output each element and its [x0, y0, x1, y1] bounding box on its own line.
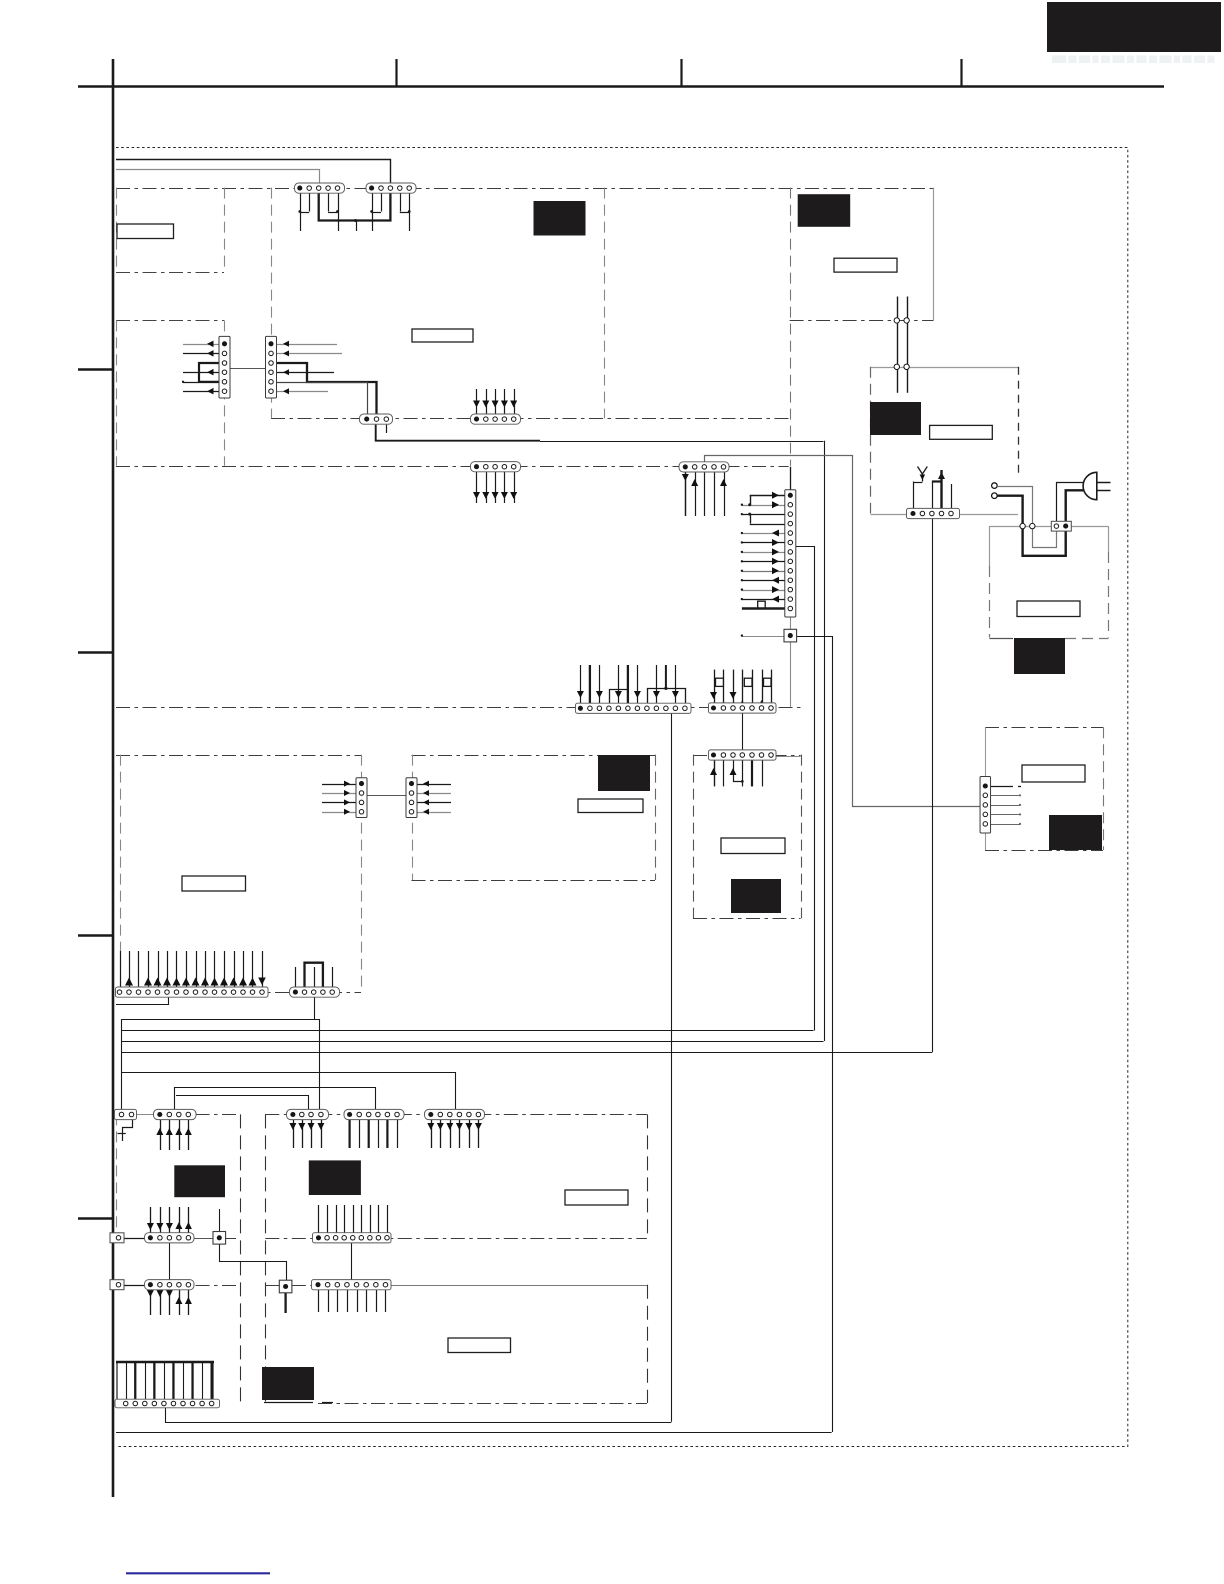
ruler tick top 2: [680, 59, 682, 87]
video board box right edge: [655, 755, 657, 880]
dash-dot line y=754.6 segment 1: [116, 755, 361, 757]
key symbol 3: [764, 678, 772, 686]
bus wire y=1052: [121, 1052, 932, 1054]
connector CN antenna: [907, 508, 960, 518]
page ruler vertical line: [112, 59, 115, 1497]
ruler tick left 3: [78, 934, 113, 936]
plug wire 1: [1057, 483, 1085, 522]
bus wire y=1071.5: [121, 1073, 456, 1110]
wire V2 pin4: [276, 372, 334, 374]
connector CN R2a: [145, 1233, 195, 1243]
amp box row2 right edge: [647, 1285, 649, 1403]
faint model number text: [1052, 56, 1215, 64]
label W2: [412, 329, 473, 342]
junction circle 2 on PSU edge: [1030, 523, 1035, 528]
key symbol 1: [716, 678, 724, 686]
amp box row2 top edge left: [116, 1285, 241, 1287]
ruler tick left 1: [78, 368, 113, 370]
amp box row1 left right-edge: [240, 1114, 242, 1403]
PCB box outline top horizontal y=187.6: [116, 188, 933, 190]
wire C3 to main bus (thick): [376, 425, 540, 441]
edge connector E3: [110, 1280, 124, 1290]
amp box row1 center right-edge: [647, 1114, 649, 1237]
label W8: [721, 838, 785, 854]
wire C6 pin3 to standby connector: [705, 456, 991, 807]
wires below CN C6: [685, 472, 687, 516]
amp box row2 bottom edge: [318, 1403, 647, 1405]
bus wire y=1087: [175, 1088, 376, 1110]
wire E3 to R3a: [124, 1285, 145, 1287]
connector CN C3: [360, 414, 393, 424]
AC wire 1: [997, 487, 1056, 548]
ruler tick left 4: [78, 1217, 113, 1219]
wires into CN C10: [120, 951, 122, 987]
power supply box bottom edge: [989, 638, 1013, 640]
wires out of CN G: [991, 786, 1014, 788]
link V1-V2: [230, 368, 266, 370]
connector CN V1: [219, 336, 230, 398]
label box B9 amp C: [309, 1160, 361, 1195]
tuner board box bottom edge: [790, 320, 934, 322]
bottom rail wire y=1432: [116, 1432, 832, 1434]
AC terminal 1: [992, 483, 998, 489]
thick bus T1 pin3 to T2 pin3: [319, 193, 391, 221]
amp box row1 center left-edge: [265, 1114, 267, 1403]
connector CN R3c: [312, 1280, 392, 1290]
wires below R1d: [349, 1120, 351, 1149]
label W4: [930, 425, 993, 439]
edge connector E2: [110, 1233, 124, 1243]
wire R3c right link: [391, 1285, 647, 1287]
board2 right edge: [224, 320, 226, 465]
wire P2 stub up: [219, 1209, 221, 1232]
AM loop antenna symbol: [918, 467, 928, 475]
connector CN C10: [116, 987, 269, 997]
connector CN C7: [576, 703, 692, 713]
wire speaker to rail: [166, 1408, 672, 1423]
connector CN C5: [471, 462, 521, 472]
connector CN C11: [290, 987, 340, 997]
wire P1 left stub: [742, 636, 784, 638]
key symbol 2: [744, 678, 752, 686]
link V4-V5: [367, 795, 406, 797]
label box B6 jack: [731, 879, 781, 913]
display board box left edge: [120, 755, 122, 993]
plug prong 1: [1097, 482, 1111, 484]
wire C9 right to box edge: [776, 756, 801, 758]
ruler tick left 2: [78, 651, 113, 653]
wire P2 to P3: [220, 1244, 287, 1281]
wire T2 pins 1-2: [372, 193, 374, 212]
connector CN V3: [785, 490, 796, 617]
transformer box right edge: [1018, 367, 1020, 475]
dash-dot line y=465.8: [116, 466, 789, 468]
main board box bottom edge y=418.4: [271, 418, 790, 420]
label W1: [117, 224, 174, 239]
dash-dot line y=754.6 segment 3: [693, 755, 801, 757]
wires out of CN V2: [276, 344, 337, 346]
label W5: [1017, 601, 1080, 617]
tuner board box right edge: [933, 188, 935, 321]
stubs above C11: [295, 967, 297, 988]
wire P1 to vertical bus x=831.6: [797, 637, 833, 1433]
board2 left edge: [116, 320, 118, 465]
power supply box top edge: [989, 526, 1108, 528]
ruler tick top 3: [960, 59, 962, 87]
display board box bottom edge: [116, 992, 361, 994]
label box B3 transformer: [870, 402, 921, 435]
connector CN T2: [366, 183, 416, 193]
wires below CN C5: [476, 472, 478, 503]
label box B4 power supply: [1014, 638, 1065, 674]
standby board box left edge: [985, 727, 987, 850]
connector CN C9: [709, 750, 777, 760]
wires below R3a: [150, 1289, 152, 1315]
wire P2 link to R2a: [194, 1238, 213, 1240]
jack board box bottom edge: [693, 918, 801, 920]
connector CN R1c: [287, 1109, 329, 1119]
dash-dot line y=707.3: [116, 707, 801, 709]
wires above R2a: [150, 1207, 152, 1234]
wires into CN V4: [322, 784, 356, 786]
label box B2: [798, 194, 851, 227]
page dotted border: [116, 148, 1128, 1447]
transformer box top edge: [871, 367, 1018, 369]
standby board box bottom edge: [985, 850, 1103, 852]
label box B8 amp L: [174, 1165, 225, 1197]
wires below R3c: [318, 1290, 320, 1312]
wire C7 drop to bottom rail: [671, 714, 673, 1422]
wire to CN T1: [116, 170, 320, 184]
AC terminal 2: [992, 493, 998, 499]
amp box row1 top edge left: [116, 1114, 241, 1116]
wire V2 pin5 to C3 pin1: [276, 383, 368, 414]
board2 top edge: [116, 320, 224, 322]
thick staple V1 rows 3-5: [199, 363, 219, 382]
wire E2 to R2a: [124, 1238, 145, 1240]
AC wire 2 thick: [997, 496, 1065, 556]
bus stub: [354, 219, 357, 222]
connector CN speaker: [115, 1399, 220, 1408]
header title block: [1047, 2, 1221, 52]
tuner board box left edge: [790, 188, 792, 466]
thick staple above C11: [305, 963, 323, 988]
transformer box bottom edge: [871, 514, 1019, 516]
connector CN G: [980, 777, 991, 834]
label box B5 standby: [1049, 815, 1102, 850]
transformer box left edge: [870, 367, 872, 514]
bus wire y=1041: [121, 1041, 824, 1043]
wire V2 pin6: [276, 391, 328, 393]
wires into CN V1: [183, 344, 219, 346]
amp box row2 top edge center: [265, 1285, 647, 1287]
ruler tick top 1: [395, 59, 397, 87]
label W7: [578, 799, 643, 813]
wire T1 pins 4-5: [328, 193, 330, 212]
bus wire y=1030.5: [121, 1030, 814, 1032]
wire below C10: [116, 997, 169, 1005]
interboard link circles pair: [897, 297, 899, 393]
wires into CN C4: [476, 389, 478, 414]
amp box row1 top edge center: [265, 1114, 647, 1116]
wire below P3 thick: [284, 1292, 286, 1313]
power supply box left edge: [989, 526, 991, 566]
wires above R2c: [318, 1205, 320, 1233]
connector CN R3a: [145, 1280, 195, 1290]
wire V3 to vertical bus x=813.5: [796, 547, 815, 1031]
standby board box right edge: [1103, 727, 1105, 850]
connector CN R1e: [425, 1109, 485, 1119]
connector CN R1b: [154, 1109, 197, 1119]
wires below R1c: [293, 1120, 295, 1149]
connector CN R1a: [115, 1109, 137, 1119]
connector CN R2c: [313, 1233, 392, 1243]
wires below R1e: [431, 1120, 433, 1149]
standby board box top edge: [985, 727, 1103, 729]
wires below CN C9: [714, 760, 716, 787]
front board box right edge: [224, 188, 226, 272]
front board box bottom edge: [116, 272, 224, 274]
plug prong 2: [1097, 490, 1111, 492]
wire antenna pin3 vertical: [932, 519, 934, 1052]
wire T2 pins 4-5: [400, 193, 402, 212]
wires into CN C7: [580, 665, 582, 703]
wires out of CN V5: [417, 784, 451, 786]
power supply box right edge: [1108, 526, 1110, 552]
connector CN C8: [709, 703, 777, 713]
amp box row1 bottom edge center: [265, 1238, 647, 1240]
AC inlet connector: [1051, 521, 1071, 531]
connector CN V4: [356, 778, 367, 818]
connector CN V2: [266, 336, 277, 398]
wires into R1b: [160, 1120, 162, 1151]
FM antenna symbol: [938, 472, 945, 479]
label W6: [1022, 765, 1085, 782]
wires below R1a ground: [123, 1119, 133, 1141]
bus wire y=1019: [122, 1020, 320, 1110]
AC power plug: [1083, 472, 1097, 499]
underline of B10: [264, 1402, 313, 1404]
connector CN R1d: [344, 1109, 404, 1119]
jack board box left edge: [693, 755, 695, 919]
connector CN C4: [471, 414, 521, 424]
wire R1a to R1b: [137, 1114, 154, 1116]
junction circle 1 on PSU edge: [1020, 523, 1025, 528]
wire T1 pins 1-2: [300, 193, 302, 212]
bus wire y=1095: [176, 1096, 309, 1110]
label W9: [182, 876, 246, 891]
connector P2: [213, 1232, 226, 1245]
wire R2a pin3 to R3a: [169, 1242, 171, 1280]
connector P3: [279, 1280, 292, 1293]
label box B1: [534, 201, 586, 236]
footer link line: [126, 1572, 270, 1574]
page ruler horizontal line: [78, 85, 1164, 88]
amp box left dashed edge: [116, 1114, 118, 1233]
wire C8 to C9: [742, 713, 744, 751]
wire into V3 pin1 from box edge: [790, 467, 792, 490]
wire C3 pin3 stub: [386, 425, 388, 433]
main board box right edge: [604, 188, 606, 419]
wire V3 bottom to P1 and C8 row: [790, 617, 792, 707]
label W10: [565, 1190, 628, 1205]
main board box left edge: [271, 188, 273, 419]
connector CN C6: [679, 462, 729, 472]
label W11: [448, 1338, 511, 1353]
staple C7 pins8-12: [648, 689, 686, 704]
video board box left edge: [412, 755, 414, 880]
label W3: [834, 258, 897, 272]
wire to CN T2: [116, 160, 391, 184]
label box B7 video: [598, 755, 650, 791]
video board box bottom edge: [412, 880, 656, 882]
wires into CN C8 with key symbols: [714, 670, 716, 704]
staple C7 pins4-6: [610, 690, 628, 704]
connector CN V5: [406, 778, 417, 818]
amp box row1 bottom edge left: [116, 1238, 241, 1240]
jack board box right edge: [801, 755, 803, 919]
plug wire 2 thick: [1066, 490, 1085, 521]
speaker terminal block: [116, 1362, 214, 1400]
thick wire V2 pin3 to C3: [276, 363, 377, 414]
front board box left edge: [116, 188, 118, 272]
wires into CN V3: [741, 492, 786, 609]
dash-dot line y=754.6 segment 2: [412, 755, 656, 757]
wire R2c to R3c: [351, 1242, 353, 1280]
long vertical wire x=823.5: [824, 441, 826, 1041]
display board box right edge: [361, 755, 363, 993]
connector CN T1: [295, 183, 345, 193]
wire C11 pin3 down to bus 1019: [314, 997, 316, 1019]
label box B10 amp bottom: [262, 1367, 314, 1400]
connector P1: [784, 629, 797, 642]
